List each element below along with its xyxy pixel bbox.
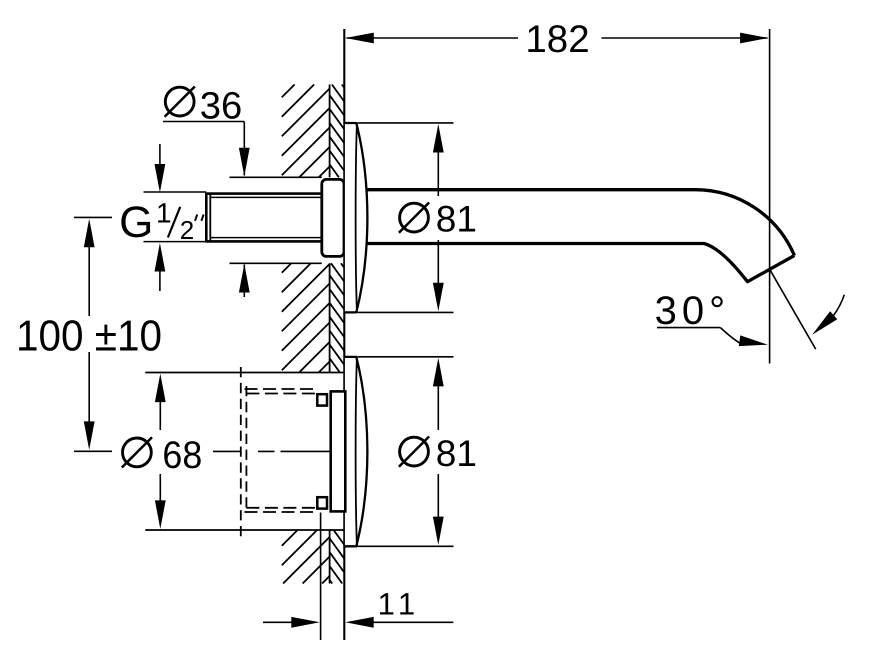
svg-text:81: 81 [436, 433, 477, 474]
svg-text:30°: 30° [655, 289, 731, 333]
svg-text:G: G [119, 198, 153, 247]
svg-text:182: 182 [525, 18, 589, 61]
svg-text:1: 1 [156, 198, 172, 229]
svg-text:81: 81 [436, 199, 477, 240]
svg-text:68: 68 [162, 434, 202, 477]
svg-text:11: 11 [378, 587, 421, 622]
svg-text:2: 2 [180, 215, 194, 245]
